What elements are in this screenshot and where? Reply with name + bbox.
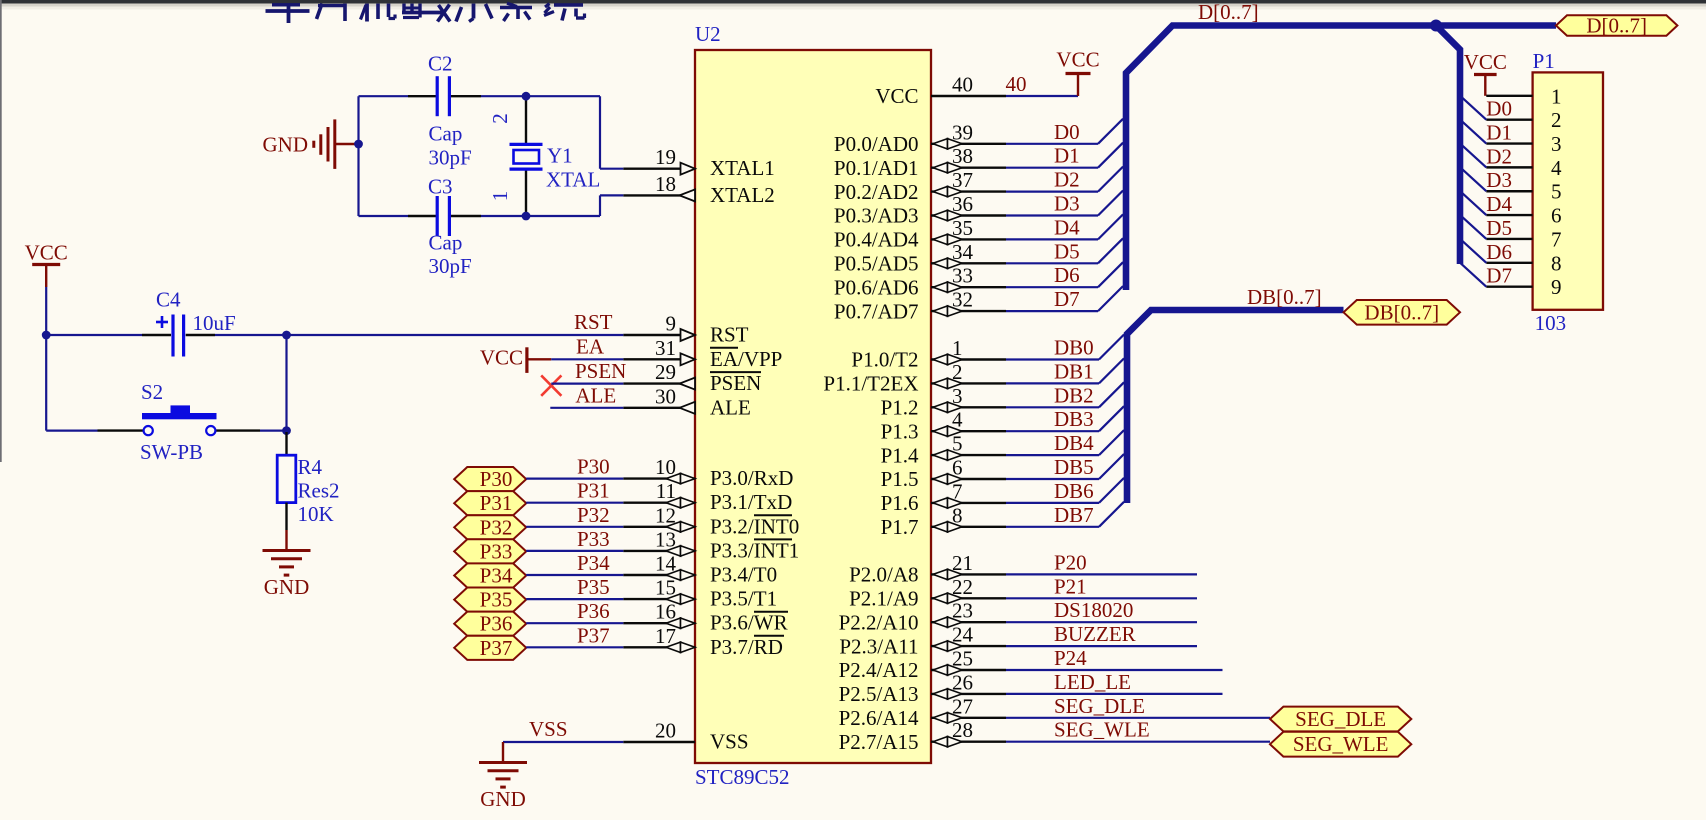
svg-text:P1.5: P1.5 bbox=[881, 467, 919, 491]
svg-text:P0.7/AD7: P0.7/AD7 bbox=[834, 299, 919, 323]
svg-text:26: 26 bbox=[952, 670, 973, 694]
svg-text:P3.3/INT1: P3.3/INT1 bbox=[710, 538, 799, 562]
svg-text:10: 10 bbox=[655, 455, 676, 479]
wire: bus tap to P1 pin 4 (D2) bbox=[1460, 143, 1486, 167]
svg-text:23: 23 bbox=[952, 599, 973, 623]
svg-text:XTAL: XTAL bbox=[546, 168, 600, 192]
svg-text:XTAL1: XTAL1 bbox=[710, 156, 775, 180]
wire: P33 flag to chip bbox=[526, 550, 623, 552]
wire: P31 flag to chip bbox=[526, 502, 623, 504]
svg-text:P1.3: P1.3 bbox=[881, 419, 919, 443]
svg-text:14: 14 bbox=[655, 552, 677, 576]
svg-text:P0.5/AD5: P0.5/AD5 bbox=[834, 252, 919, 276]
svg-text:D6: D6 bbox=[1486, 240, 1512, 264]
svg-text:SEG_WLE: SEG_WLE bbox=[1293, 732, 1389, 756]
svg-text:P36: P36 bbox=[577, 599, 610, 623]
svg-text:VSS: VSS bbox=[710, 730, 749, 754]
svg-text:P1.2: P1.2 bbox=[881, 396, 919, 420]
pin 39 P0.0/AD0 (right) bbox=[834, 120, 1006, 156]
wire: bus tap to P1 pin 9 (D7) bbox=[1460, 263, 1486, 287]
wire: P35 flag to chip bbox=[526, 598, 623, 600]
svg-text:31: 31 bbox=[655, 336, 676, 360]
svg-text:P3.4/T0: P3.4/T0 bbox=[710, 563, 777, 587]
svg-text:P35: P35 bbox=[480, 588, 513, 612]
svg-text:SEG_WLE: SEG_WLE bbox=[1054, 718, 1150, 742]
svg-text:P20: P20 bbox=[1054, 550, 1087, 574]
port flag P32 bbox=[454, 515, 526, 539]
wire: XTAL1 to pin 19 bbox=[600, 168, 623, 170]
svg-text:15: 15 bbox=[655, 576, 676, 600]
svg-text:2: 2 bbox=[488, 113, 512, 124]
svg-text:VCC: VCC bbox=[25, 241, 68, 265]
port flag P30 bbox=[454, 467, 526, 491]
svg-text:38: 38 bbox=[952, 144, 973, 168]
svg-text:22: 22 bbox=[952, 575, 973, 599]
ground GND (VSS) bbox=[502, 742, 504, 763]
svg-text:BUZZER: BUZZER bbox=[1054, 622, 1136, 646]
svg-text:P31: P31 bbox=[577, 479, 610, 503]
svg-text:30pF: 30pF bbox=[429, 254, 472, 278]
svg-text:DB4: DB4 bbox=[1054, 431, 1094, 455]
wire: P36 flag to chip bbox=[526, 622, 623, 624]
svg-text:5: 5 bbox=[952, 432, 963, 456]
pin 5 P1.4 (right) bbox=[881, 432, 1006, 468]
svg-text:25: 25 bbox=[952, 647, 973, 671]
svg-text:SEG_DLE: SEG_DLE bbox=[1054, 694, 1145, 718]
svg-text:P1: P1 bbox=[1533, 49, 1555, 73]
ground GND (reset) bbox=[285, 530, 287, 551]
svg-text:P34: P34 bbox=[480, 564, 513, 588]
pin 37 P0.2/AD2 (right) bbox=[834, 168, 1006, 204]
wire: VSS to chip bbox=[503, 741, 623, 743]
svg-text:VCC: VCC bbox=[480, 346, 523, 370]
pin 4 P1.3 (right) bbox=[881, 408, 1006, 444]
pin 19 XTAL1 (left) bbox=[623, 145, 775, 180]
port flag SEG_DLE bbox=[1270, 707, 1411, 732]
svg-text:LED_LE: LED_LE bbox=[1054, 670, 1131, 694]
wire: xtal loop left vertical bbox=[357, 96, 359, 216]
svg-text:P32: P32 bbox=[480, 515, 513, 539]
P1 pin 2 bbox=[1486, 108, 1561, 132]
pin 30 ALE (left) bbox=[623, 384, 751, 419]
svg-text:P2.1/A9: P2.1/A9 bbox=[849, 587, 918, 611]
port flag P34 bbox=[454, 563, 526, 587]
svg-text:D[0..7]: D[0..7] bbox=[1586, 14, 1647, 38]
svg-text:16: 16 bbox=[655, 600, 676, 624]
svg-text:D7: D7 bbox=[1054, 287, 1080, 311]
P1 pin 6 bbox=[1486, 204, 1561, 228]
svg-text:VSS: VSS bbox=[529, 717, 568, 741]
port flag DB[0..7] bbox=[1344, 300, 1461, 325]
power port VCC (EA) bbox=[480, 346, 551, 373]
wire: xtal loop right upper vertical bbox=[599, 96, 601, 169]
svg-text:8: 8 bbox=[952, 503, 963, 527]
junction: D bus tee bbox=[1430, 20, 1442, 32]
wire: net D0 from pin 39 bbox=[1006, 119, 1123, 144]
pin 3 P1.2 (right) bbox=[881, 384, 1006, 420]
junction: vcc/C4 bbox=[42, 331, 51, 340]
svg-text:P0.0/AD0: P0.0/AD0 bbox=[834, 132, 919, 156]
svg-text:DB[0..7]: DB[0..7] bbox=[1364, 300, 1439, 324]
svg-text:P2.4/A12: P2.4/A12 bbox=[839, 658, 919, 682]
pin 7 P1.6 (right) bbox=[881, 479, 1006, 515]
wire: P30 flag to chip bbox=[526, 478, 623, 480]
svg-text:5: 5 bbox=[1551, 180, 1562, 204]
capacitor C2 bbox=[408, 76, 481, 116]
wire: net DS18020 from pin 23 bbox=[1006, 621, 1197, 623]
svg-text:Res2: Res2 bbox=[298, 479, 340, 503]
svg-text:D5: D5 bbox=[1486, 216, 1512, 240]
wire: reset rail to C4 bbox=[46, 334, 142, 336]
svg-text:P21: P21 bbox=[1054, 574, 1087, 598]
svg-text:37: 37 bbox=[952, 168, 973, 192]
svg-text:C2: C2 bbox=[428, 52, 453, 76]
wire: bus tap to P1 pin 2 (D0) bbox=[1460, 96, 1486, 120]
pin 33 P0.6/AD6 (right) bbox=[834, 264, 1006, 300]
svg-text:P1.4: P1.4 bbox=[881, 443, 919, 467]
wire: RST node to chip bbox=[287, 334, 624, 336]
svg-text:D2: D2 bbox=[1054, 168, 1080, 192]
wire: net DB5 from pin 6 bbox=[1006, 454, 1124, 479]
svg-text:7: 7 bbox=[1551, 227, 1562, 251]
junction: switch/R4 bbox=[282, 426, 291, 435]
svg-text:D0: D0 bbox=[1486, 97, 1512, 121]
svg-text:9: 9 bbox=[1551, 275, 1562, 299]
svg-text:U2: U2 bbox=[695, 22, 721, 46]
svg-text:XTAL2: XTAL2 bbox=[710, 183, 775, 207]
svg-text:P30: P30 bbox=[577, 455, 610, 479]
pin 11 P3.1/TxD (left) bbox=[623, 479, 792, 514]
svg-text:STC89C52: STC89C52 bbox=[695, 765, 790, 789]
wire: P32 flag to chip bbox=[526, 526, 623, 528]
pin 36 P0.3/AD3 (right) bbox=[834, 192, 1006, 228]
svg-text:P30: P30 bbox=[480, 467, 513, 491]
junction: xtal top bbox=[522, 92, 531, 101]
svg-text:39: 39 bbox=[952, 120, 973, 144]
svg-text:33: 33 bbox=[952, 264, 973, 288]
wire: net DB4 from pin 5 bbox=[1006, 430, 1124, 455]
pin 32 P0.7/AD7 (right) bbox=[834, 288, 1006, 324]
svg-text:EA/VPP: EA/VPP bbox=[710, 347, 782, 371]
svg-text:P2.0/A8: P2.0/A8 bbox=[849, 563, 918, 587]
pin 26 P2.5/A13 (right) bbox=[839, 670, 1006, 706]
pin 6 P1.5 (right) bbox=[881, 456, 1006, 492]
bus branch to P1 bbox=[1436, 26, 1460, 265]
wire: net SEG_DLE from pin 27 bbox=[1006, 717, 1270, 719]
svg-text:28: 28 bbox=[952, 718, 973, 742]
svg-text:DB[0..7]: DB[0..7] bbox=[1247, 285, 1322, 309]
svg-text:DB7: DB7 bbox=[1054, 503, 1094, 527]
P1 pin 3 bbox=[1486, 132, 1561, 156]
pin 13 P3.3/INT1 (left) bbox=[623, 527, 799, 562]
svg-text:GND: GND bbox=[264, 575, 310, 599]
window top edge bar bbox=[0, 0, 1706, 4]
svg-text:P3.6/WR: P3.6/WR bbox=[710, 611, 788, 635]
wire: switch row left bbox=[46, 430, 97, 432]
port flag SEG_WLE bbox=[1270, 732, 1411, 757]
svg-text:34: 34 bbox=[952, 240, 974, 264]
wire: net D6 from pin 33 bbox=[1006, 262, 1123, 287]
port flag P31 bbox=[454, 491, 526, 515]
switch S2 SW-PB bbox=[98, 405, 261, 435]
power port VCC (reset) bbox=[32, 263, 60, 266]
svg-text:P2.2/A10: P2.2/A10 bbox=[839, 610, 919, 634]
svg-text:P0.2/AD2: P0.2/AD2 bbox=[834, 180, 919, 204]
pin 38 P0.1/AD1 (right) bbox=[834, 144, 1006, 180]
wire: net BUZZER from pin 24 bbox=[1006, 645, 1197, 647]
svg-text:VCC: VCC bbox=[1464, 50, 1507, 74]
svg-text:C3: C3 bbox=[428, 175, 453, 199]
svg-text:3: 3 bbox=[1551, 132, 1562, 156]
svg-text:P2.7/A15: P2.7/A15 bbox=[839, 730, 919, 754]
no-ERC marker on PSEN bbox=[541, 375, 561, 395]
svg-text:8: 8 bbox=[1551, 251, 1562, 275]
wire: PSEN to chip bbox=[551, 383, 623, 385]
capacitor C3 bbox=[408, 196, 481, 236]
svg-text:PSEN: PSEN bbox=[575, 359, 626, 383]
wire: net P24 from pin 25 bbox=[1006, 669, 1223, 671]
wire: bus tap to P1 pin 5 (D3) bbox=[1460, 167, 1486, 191]
wire: xtal loop top (right of C2) bbox=[481, 95, 600, 97]
power port VCC (P1) bbox=[1474, 73, 1497, 76]
IC U2 STC89C52 body bbox=[695, 50, 931, 763]
capacitor C4 (polarized) bbox=[142, 315, 215, 357]
P1 pin 7 bbox=[1486, 227, 1561, 251]
power port VCC (pin 40) bbox=[1066, 72, 1091, 75]
svg-text:D5: D5 bbox=[1054, 239, 1080, 263]
svg-text:12: 12 bbox=[655, 503, 676, 527]
pin 27 P2.6/A14 (right) bbox=[839, 694, 1006, 730]
pin 28 P2.7/A15 (right) bbox=[839, 718, 1006, 754]
port flag P33 bbox=[454, 539, 526, 563]
pin 12 P3.2/INT0 (left) bbox=[623, 503, 799, 538]
wire: bus tap to P1 pin 6 (D4) bbox=[1460, 191, 1486, 215]
svg-text:P2.5/A13: P2.5/A13 bbox=[839, 682, 919, 706]
pin 1 P1.0/T2 (right) bbox=[851, 336, 1006, 372]
svg-text:D2: D2 bbox=[1486, 144, 1512, 168]
pin 17 P3.7/RD (left) bbox=[623, 624, 784, 659]
pin 2 P1.1/T2EX (right) bbox=[823, 360, 1006, 396]
svg-text:27: 27 bbox=[952, 694, 973, 718]
svg-text:P37: P37 bbox=[577, 623, 610, 647]
pin 23 P2.2/A10 (right) bbox=[839, 599, 1006, 635]
wire: net D5 from pin 34 bbox=[1006, 238, 1123, 263]
svg-text:P3.0/RxD: P3.0/RxD bbox=[710, 466, 793, 490]
svg-text:1: 1 bbox=[488, 191, 512, 202]
svg-text:P36: P36 bbox=[480, 612, 513, 636]
svg-text:PSEN: PSEN bbox=[710, 371, 761, 395]
svg-text:SEG_DLE: SEG_DLE bbox=[1295, 707, 1386, 731]
pin 35 P0.4/AD4 (right) bbox=[834, 216, 1006, 252]
svg-text:1: 1 bbox=[1551, 84, 1562, 108]
wire: node down to R4 bbox=[285, 335, 287, 432]
wire: bus tap to P1 pin 7 (D5) bbox=[1460, 215, 1486, 239]
svg-text:RST: RST bbox=[574, 310, 613, 334]
svg-text:P3.1/TxD: P3.1/TxD bbox=[710, 490, 792, 514]
wire: net P21 from pin 22 bbox=[1006, 597, 1197, 599]
svg-text:DB1: DB1 bbox=[1054, 359, 1094, 383]
svg-text:2: 2 bbox=[952, 360, 963, 384]
svg-text:19: 19 bbox=[655, 145, 676, 169]
svg-text:P24: P24 bbox=[1054, 646, 1087, 670]
wire: net DB0 from pin 1 bbox=[1006, 335, 1124, 360]
svg-text:DB2: DB2 bbox=[1054, 383, 1094, 407]
svg-text:P0.1/AD1: P0.1/AD1 bbox=[834, 156, 919, 180]
svg-text:D1: D1 bbox=[1486, 121, 1512, 145]
junction: C4/R4 node bbox=[282, 331, 291, 340]
svg-text:36: 36 bbox=[952, 192, 973, 216]
ground GND (left, rotated) bbox=[263, 119, 359, 168]
wire: xtal loop bottom (left of C3) bbox=[359, 215, 409, 217]
wire: xtal loop top (left of C2) bbox=[359, 95, 409, 97]
svg-text:R4: R4 bbox=[298, 455, 323, 479]
svg-text:4: 4 bbox=[952, 408, 963, 432]
pin 34 P0.5/AD5 (right) bbox=[834, 240, 1006, 276]
pin 10 P3.0/RxD (left) bbox=[623, 455, 793, 490]
pin 21 P2.0/A8 (right) bbox=[849, 551, 1006, 587]
resistor R4 bbox=[277, 432, 296, 530]
wire: net P20 from pin 21 bbox=[1006, 573, 1197, 575]
wire: net DB2 from pin 3 bbox=[1006, 382, 1124, 407]
svg-text:P31: P31 bbox=[480, 491, 513, 515]
svg-text:P1.7: P1.7 bbox=[881, 515, 919, 539]
svg-text:Cap: Cap bbox=[429, 231, 463, 255]
svg-text:D1: D1 bbox=[1054, 144, 1080, 168]
svg-text:DB6: DB6 bbox=[1054, 479, 1094, 503]
wire: P37 flag to chip bbox=[526, 646, 623, 648]
pin 31 EA/VPP (left) bbox=[623, 336, 782, 371]
svg-text:P3.7/RD: P3.7/RD bbox=[710, 635, 783, 659]
svg-text:ALE: ALE bbox=[575, 384, 616, 408]
svg-text:18: 18 bbox=[655, 172, 676, 196]
pin 40 VCC (right) bbox=[875, 73, 1006, 109]
wire: vcc down to reset rail bbox=[45, 287, 47, 431]
svg-text:24: 24 bbox=[952, 623, 974, 647]
svg-text:VCC: VCC bbox=[1056, 48, 1099, 72]
svg-text:S2: S2 bbox=[141, 380, 163, 404]
P1 pin 8 bbox=[1486, 251, 1561, 275]
svg-text:20: 20 bbox=[655, 719, 676, 743]
port flag P37 bbox=[454, 636, 526, 660]
wire: net DB3 from pin 4 bbox=[1006, 406, 1124, 431]
svg-text:RST: RST bbox=[710, 323, 749, 347]
P1 pin 9 bbox=[1486, 275, 1561, 299]
svg-text:P0.3/AD3: P0.3/AD3 bbox=[834, 204, 919, 228]
svg-text:D7: D7 bbox=[1486, 264, 1512, 288]
pin 29 PSEN (left) bbox=[623, 360, 761, 395]
svg-text:DB3: DB3 bbox=[1054, 407, 1094, 431]
svg-text:29: 29 bbox=[655, 360, 676, 384]
wire: xtal loop bottom (right of C3) bbox=[481, 215, 600, 217]
title 单片机最小系统 (top-cropped) bbox=[266, 3, 585, 23]
wire: bus tap to P1 pin 8 (D6) bbox=[1460, 239, 1486, 263]
svg-text:P1.0/T2: P1.0/T2 bbox=[851, 348, 918, 372]
wire: P34 flag to chip bbox=[526, 574, 623, 576]
wire: net D1 from pin 38 bbox=[1006, 143, 1123, 168]
svg-text:32: 32 bbox=[952, 288, 973, 312]
svg-text:DB0: DB0 bbox=[1054, 336, 1094, 360]
svg-text:3: 3 bbox=[952, 384, 963, 408]
svg-text:103: 103 bbox=[1535, 311, 1567, 335]
pin 15 P3.5/T1 (left) bbox=[623, 576, 777, 611]
svg-text:D3: D3 bbox=[1486, 168, 1512, 192]
pin 9 RST (left) bbox=[623, 312, 748, 347]
svg-text:11: 11 bbox=[656, 479, 676, 503]
svg-text:P33: P33 bbox=[577, 527, 610, 551]
port flag P35 bbox=[454, 588, 526, 612]
svg-text:DS18020: DS18020 bbox=[1054, 598, 1133, 622]
pin 25 P2.4/A12 (right) bbox=[839, 647, 1006, 683]
wire: net D2 from pin 37 bbox=[1006, 167, 1123, 192]
bus D[0..7] vertical + top run bbox=[1126, 26, 1556, 291]
wire: bus tap to P1 pin 3 (D1) bbox=[1460, 120, 1486, 144]
wire: EA to chip bbox=[551, 358, 623, 360]
P1 pin 5 bbox=[1486, 180, 1561, 204]
svg-text:30pF: 30pF bbox=[429, 146, 472, 170]
wire: net SEG_WLE from pin 28 bbox=[1006, 741, 1270, 743]
svg-text:9: 9 bbox=[666, 312, 677, 336]
wire: net LED_LE from pin 26 bbox=[1006, 693, 1223, 695]
svg-text:P2.6/A14: P2.6/A14 bbox=[839, 706, 919, 730]
svg-text:10uF: 10uF bbox=[193, 311, 236, 335]
pin 20 VSS (left) bbox=[623, 719, 748, 754]
connector P1 body bbox=[1533, 72, 1603, 309]
svg-text:P32: P32 bbox=[577, 503, 610, 527]
wire: pin40 to VCC bbox=[1006, 95, 1078, 97]
svg-text:30: 30 bbox=[655, 384, 676, 408]
svg-text:P35: P35 bbox=[577, 575, 610, 599]
junction: gnd to loop bbox=[354, 140, 363, 149]
pin 24 P2.3/A11 (right) bbox=[839, 623, 1006, 659]
pin 18 XTAL2 (left) bbox=[623, 172, 775, 207]
svg-text:4: 4 bbox=[1551, 156, 1562, 180]
P1 pin 4 bbox=[1486, 156, 1562, 180]
svg-text:P33: P33 bbox=[480, 539, 513, 563]
svg-text:C4: C4 bbox=[156, 288, 181, 312]
svg-text:EA: EA bbox=[576, 335, 605, 359]
wire: net DB6 from pin 7 bbox=[1006, 478, 1124, 503]
svg-text:D6: D6 bbox=[1054, 263, 1080, 287]
wire: net D4 from pin 35 bbox=[1006, 214, 1123, 239]
svg-text:P3.2/INT0: P3.2/INT0 bbox=[710, 514, 799, 538]
svg-text:D0: D0 bbox=[1054, 120, 1080, 144]
svg-text:D4: D4 bbox=[1486, 192, 1512, 216]
wire: net DB7 from pin 8 bbox=[1006, 502, 1124, 527]
wire: net D7 from pin 32 bbox=[1006, 286, 1123, 311]
junction: xtal bottom bbox=[522, 212, 531, 221]
svg-text:6: 6 bbox=[1551, 204, 1562, 228]
P1 pin 1 bbox=[1486, 84, 1561, 108]
svg-text:D[0..7]: D[0..7] bbox=[1198, 0, 1259, 24]
svg-text:Y1: Y1 bbox=[547, 144, 573, 168]
pin 14 P3.4/T0 (left) bbox=[623, 552, 777, 587]
svg-text:6: 6 bbox=[952, 456, 963, 480]
wire: C4 to RST node bbox=[215, 334, 287, 336]
svg-text:P37: P37 bbox=[480, 636, 513, 660]
svg-text:GND: GND bbox=[263, 133, 309, 157]
wire: xtal loop right lower vertical bbox=[599, 195, 601, 216]
svg-text:Cap: Cap bbox=[429, 122, 463, 146]
svg-text:7: 7 bbox=[952, 479, 963, 503]
svg-text:35: 35 bbox=[952, 216, 973, 240]
svg-text:P1.6: P1.6 bbox=[881, 491, 919, 515]
window left edge line bbox=[0, 0, 2, 462]
pin 22 P2.1/A9 (right) bbox=[849, 575, 1006, 611]
svg-text:GND: GND bbox=[480, 787, 526, 811]
svg-text:P0.6/AD6: P0.6/AD6 bbox=[834, 275, 919, 299]
svg-text:17: 17 bbox=[655, 624, 676, 648]
svg-text:40: 40 bbox=[952, 73, 973, 97]
